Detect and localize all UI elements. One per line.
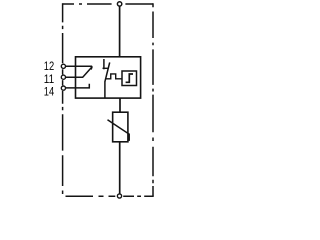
disconnector block box <box>76 57 141 98</box>
node: bottom terminal circle <box>117 194 121 198</box>
terminal circle 11 <box>61 75 65 79</box>
node: top terminal circle <box>117 2 121 6</box>
varistor RV1 body <box>113 112 128 142</box>
varistor diagonal <box>108 120 130 141</box>
enclosure boundary left (dash-dot) <box>62 3 64 194</box>
terminal circle 14 <box>61 86 65 90</box>
wire: box to varistor <box>119 98 121 112</box>
signal indicator square U1 <box>122 71 137 86</box>
wire: terminal 14 line with contact stub <box>66 84 90 88</box>
wire: terminal 12 line <box>66 65 93 67</box>
enclosure boundary bottom (dash-dot) <box>66 195 154 197</box>
thermal disconnector tick <box>103 67 108 69</box>
wire: varistor to bottom node <box>119 142 121 194</box>
enclosure boundary right (dash-dot) <box>152 3 154 196</box>
contact barb on 12 line <box>91 66 92 69</box>
terminal circle 12 <box>61 64 65 68</box>
mechanical linkage (square wave) <box>105 74 122 79</box>
wire: blade to box bottom <box>104 82 106 99</box>
wire: top terminal to disconnector box <box>119 6 121 57</box>
step function symbol <box>126 74 133 82</box>
svg-text:14: 14 <box>44 84 54 98</box>
thermal disconnector blade <box>105 62 110 81</box>
svg-text:12: 12 <box>44 59 54 73</box>
thermal disconnector stem <box>103 59 105 69</box>
wire: terminal 11 line <box>66 76 84 78</box>
changeover contact lever (11 to 12) <box>83 67 93 78</box>
enclosure boundary top (dash-dot) <box>63 3 153 5</box>
